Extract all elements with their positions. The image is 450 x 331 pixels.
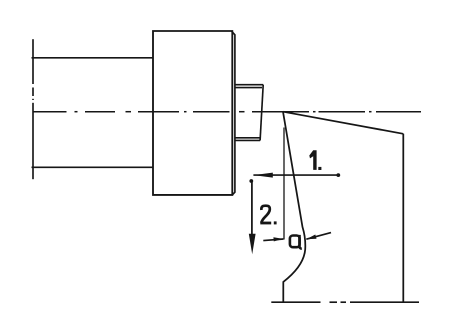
shaft left end vertical edge (32, 39, 34, 179)
arrow 1 end dot (336, 173, 340, 177)
tool top edge (283, 112, 403, 134)
centerline (dash-dot axis) (33, 111, 421, 113)
angle left arrow line (263, 239, 283, 241)
angle right arrow line (306, 233, 331, 240)
shaft bottom line (32, 166, 154, 168)
arrow 1 line (feed direction) (253, 174, 338, 176)
shaft top line (32, 57, 154, 59)
arrow 2 line (infeed direction) (251, 181, 253, 236)
label a (drawn glyph) (290, 235, 302, 249)
workpiece stub top edge (outer) (235, 84, 263, 86)
workpiece stub bottom edge (outer) (235, 139, 260, 141)
label 2. (260, 206, 276, 225)
tool front edge with S-curve (283, 112, 305, 303)
chuck face outer edge line (232, 31, 235, 195)
workpiece stub right edge (260, 85, 263, 141)
label 1. (309, 150, 321, 170)
arrow 1 head (253, 173, 272, 178)
chuck body (153, 31, 232, 195)
tool bottom line with break (271, 301, 419, 303)
workpiece stub bottom edge (inner) (235, 137, 261, 139)
arrow 2 start dot (249, 179, 253, 183)
angle extension line (283, 128, 285, 240)
angle left arrow head (273, 237, 283, 241)
workpiece stub top edge (inner) (235, 87, 262, 89)
angle right arrow head (306, 235, 316, 240)
arrow 2 head (249, 234, 256, 254)
tool right edge (402, 134, 404, 302)
